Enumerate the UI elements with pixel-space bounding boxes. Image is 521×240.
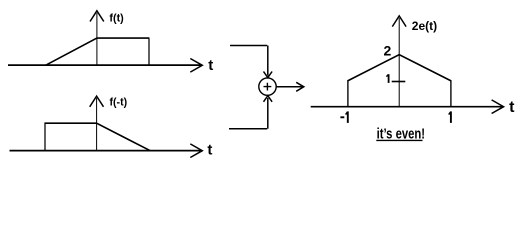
right plot vertical axis arrowhead <box>392 16 406 27</box>
top plot t-axis <box>8 64 202 66</box>
wire output arrow of adder <box>276 82 304 91</box>
label -1 (axis) <box>340 111 347 123</box>
underline of it's even! <box>376 139 422 141</box>
wire bottom feed into adder <box>229 96 272 129</box>
label 1 (axis) <box>449 111 451 123</box>
svg-text:t: t <box>509 99 515 116</box>
right plot vertical axis <box>398 18 400 107</box>
plus sign inside adder <box>264 83 272 91</box>
signal 2e(t): trapezoid/triangle <box>348 81 451 107</box>
svg-text:t: t <box>208 57 213 74</box>
right plot t-axis <box>311 106 503 108</box>
bottom plot vertical axis <box>96 98 98 151</box>
signal 2e(t) slopes <box>347 55 451 81</box>
svg-text:it’s even!: it’s even! <box>377 125 425 142</box>
wire top feed into adder <box>230 46 272 78</box>
signal f(-t) top and down ramp <box>44 123 150 150</box>
svg-text:2: 2 <box>384 43 392 59</box>
top plot vertical axis <box>96 13 98 65</box>
svg-text:t: t <box>207 142 212 159</box>
svg-text:2e(t): 2e(t) <box>412 19 437 33</box>
bottom plot vertical axis arrowhead <box>90 96 104 107</box>
signal f(-t): left edge, flat top, down ramp <box>44 124 46 151</box>
signal f(t) right edge <box>148 39 150 66</box>
signal f(t): ramp, flat top, right edge <box>46 38 149 65</box>
svg-text:f(-t): f(-t) <box>110 96 128 108</box>
summing junction circle <box>259 78 276 95</box>
svg-text:f(t): f(t) <box>109 12 124 24</box>
top plot vertical axis arrowhead <box>90 11 104 22</box>
tick at height 1 <box>392 81 406 83</box>
bottom plot t-axis <box>10 150 203 152</box>
label 1 (tick value) <box>386 74 388 83</box>
